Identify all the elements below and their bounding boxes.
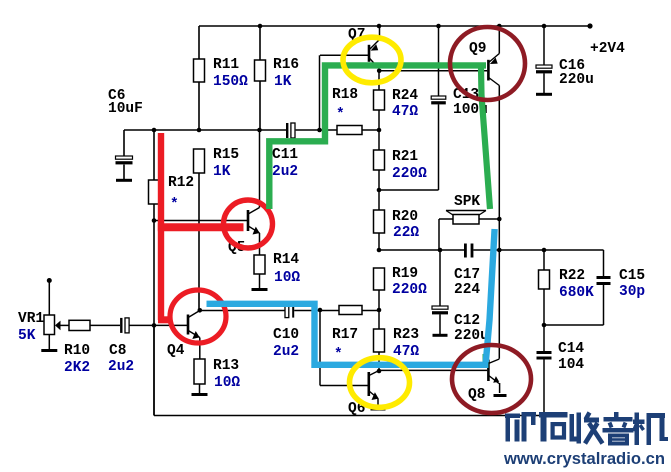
capacitor C16	[536, 26, 552, 93]
wire output row y250	[379, 249, 604, 251]
svg-text:R20: R20	[392, 209, 418, 225]
resistor R13	[194, 359, 205, 393]
svg-text:*: *	[334, 347, 343, 363]
resistor R21	[374, 130, 385, 190]
wire Q9 collector to Q8 collector	[498, 86, 500, 359]
svg-text:SPK: SPK	[454, 194, 480, 210]
capacitor C13	[431, 26, 446, 190]
svg-text:10uF: 10uF	[108, 101, 143, 117]
capacitor C8	[120, 318, 122, 333]
svg-text:220u: 220u	[559, 72, 594, 88]
green annotation stub at Q8 base	[483, 354, 489, 368]
wire Q7 base drop	[319, 55, 321, 130]
svg-text:104: 104	[558, 357, 584, 373]
red circle Q5	[224, 200, 273, 248]
node +2V4 terminal	[587, 23, 592, 28]
svg-text:+2V4: +2V4	[590, 41, 625, 57]
node C12 top	[438, 248, 443, 253]
wire C8 to Q4 base	[129, 324, 188, 326]
red annotation path (input trace)	[158, 133, 244, 320]
svg-text:R15: R15	[213, 147, 239, 163]
svg-text:224: 224	[454, 282, 480, 298]
ground R13	[192, 393, 208, 396]
svg-text:2K2: 2K2	[64, 360, 90, 376]
node R22 bottom / C14 top	[542, 323, 547, 328]
svg-text:47Ω: 47Ω	[392, 104, 418, 120]
ground C12	[433, 334, 448, 337]
node R23 bottom / Q6 collector	[377, 369, 382, 374]
svg-text:2u2: 2u2	[273, 344, 299, 360]
resistor R19	[374, 268, 385, 310]
transistor Q7 (PNP)	[320, 26, 380, 69]
resistor R12	[149, 130, 160, 416]
resistor R20	[374, 190, 385, 250]
wire Q5 base	[154, 220, 247, 222]
svg-text:5K: 5K	[18, 328, 36, 344]
ground C16	[536, 93, 552, 96]
svg-text:220Ω: 220Ω	[392, 166, 427, 182]
node R22 top	[542, 248, 547, 253]
svg-text:R14: R14	[273, 252, 299, 268]
resistor R22	[539, 250, 550, 325]
speaker SPK	[439, 211, 499, 251]
dark red circle Q9	[450, 27, 525, 100]
ground C6	[116, 179, 132, 182]
transistor Q5 (NPN)	[248, 208, 260, 235]
node SPK right / Q9-Q8 collector column	[497, 217, 502, 222]
node output column C17 junction	[497, 248, 502, 253]
svg-text:2u2: 2u2	[108, 359, 134, 375]
svg-text:Q8: Q8	[468, 387, 485, 403]
svg-text:R18: R18	[332, 87, 358, 103]
svg-text:150Ω: 150Ω	[213, 74, 248, 90]
potentiometer VR1	[44, 278, 55, 349]
svg-text:C8: C8	[109, 343, 126, 359]
node Q7 collector / R24 top	[377, 69, 382, 74]
node Q4 base / C8 junction	[152, 323, 157, 328]
svg-text:R16: R16	[273, 57, 299, 73]
resistor R17	[339, 306, 362, 315]
svg-text:R13: R13	[213, 358, 239, 374]
svg-text:R11: R11	[213, 57, 239, 73]
node R20 bottom output rail	[377, 248, 382, 253]
ground Q6	[371, 408, 386, 411]
node R16 top	[258, 24, 263, 29]
svg-text:www.crystalradio.cn: www.crystalradio.cn	[503, 450, 665, 468]
blue annotation path (Q4-Q8 trace)	[207, 229, 495, 365]
svg-text:1K: 1K	[213, 164, 231, 180]
svg-text:220u: 220u	[454, 328, 489, 344]
wire Q9 base	[379, 70, 487, 72]
svg-text:R12: R12	[168, 175, 194, 191]
svg-text:10Ω: 10Ω	[214, 375, 240, 391]
svg-text:C11: C11	[272, 147, 298, 163]
capacitor C17	[464, 244, 473, 258]
resistor R10	[60, 320, 120, 330]
svg-text:22Ω: 22Ω	[393, 225, 419, 241]
transistor Q4 (NPN)	[188, 311, 200, 360]
transistor Q9 (PNP)	[488, 26, 499, 86]
svg-text:10Ω: 10Ω	[274, 270, 300, 286]
node R21 bottom	[377, 188, 382, 193]
node Q7 emitter rail	[377, 24, 382, 29]
wire node row y130 (C6 to C11 to R18)	[124, 129, 379, 131]
node Q5 collector / R16 bottom	[257, 128, 262, 133]
svg-text:R19: R19	[392, 266, 418, 282]
transistor Q6 (NPN)	[369, 371, 379, 408]
svg-text:R23: R23	[393, 327, 419, 343]
svg-text:C10: C10	[273, 327, 299, 343]
yellow circle Q6	[350, 358, 410, 408]
svg-text:R21: R21	[392, 149, 418, 165]
svg-text:C12: C12	[454, 313, 480, 329]
svg-text:30p: 30p	[619, 284, 645, 300]
svg-text:*: *	[170, 197, 179, 213]
svg-text:1K: 1K	[274, 74, 292, 90]
yellow circle Q7	[343, 37, 401, 83]
transistor Q8 (NPN)	[488, 359, 499, 393]
node Q5 base branch	[152, 218, 157, 223]
svg-text:R22: R22	[559, 268, 585, 284]
wire R21 bottom to C13 column	[379, 189, 439, 191]
capacitor C14	[537, 325, 552, 416]
red circle Q4	[170, 290, 226, 343]
ground Q8	[494, 394, 507, 397]
resistor R16	[255, 26, 266, 130]
svg-text:C14: C14	[558, 341, 584, 357]
resistor R18	[337, 126, 362, 135]
capacitor C11	[286, 123, 288, 138]
node R19/R17 junction	[377, 308, 382, 313]
resistor R11	[194, 26, 205, 130]
node Q9 emitter rail	[497, 24, 502, 29]
node Q4 collector	[198, 308, 203, 313]
capacitor C12	[432, 250, 448, 334]
watermark chinese text kuangshi shouyinji	[505, 412, 668, 445]
svg-text:220Ω: 220Ω	[392, 282, 427, 298]
wire bottom feedback rail	[154, 325, 544, 415]
wire Q8 base	[379, 369, 487, 371]
resistor R24	[374, 71, 385, 130]
node R15 top	[197, 128, 202, 133]
resistor R23	[374, 310, 385, 371]
node C16 rail	[542, 24, 547, 29]
svg-text:47Ω: 47Ω	[393, 344, 419, 360]
svg-text:C15: C15	[619, 268, 645, 284]
node Q7 base drop / R18 left	[317, 128, 322, 133]
node C13 rail	[436, 24, 441, 29]
wire Q4 collector row y310	[200, 310, 379, 312]
dark red circle Q8	[452, 345, 531, 413]
ground VR1	[41, 349, 57, 352]
capacitor C15	[544, 250, 611, 325]
wiper arrow VR1	[55, 321, 61, 331]
node C10/R17/Q6-base junction	[318, 308, 323, 313]
node R12 top	[152, 128, 157, 133]
svg-text:Q4: Q4	[167, 343, 185, 359]
svg-text:R17: R17	[332, 327, 358, 343]
resistor R14	[254, 233, 265, 288]
resistor R15	[194, 149, 205, 310]
green annotation path (Q5-Q9 trace)	[269, 65, 490, 209]
svg-text:VR1: VR1	[18, 311, 44, 327]
wire Q5 collector riser	[259, 130, 261, 208]
svg-text:C17: C17	[454, 267, 480, 283]
svg-text:R24: R24	[392, 88, 418, 104]
svg-text:2u2: 2u2	[272, 164, 298, 180]
svg-text:Q9: Q9	[469, 41, 486, 57]
svg-text:R10: R10	[64, 343, 90, 359]
svg-text:680K: 680K	[559, 285, 594, 301]
wire Q6 base drop	[320, 310, 369, 386]
ground R14	[252, 288, 268, 291]
svg-text:*: *	[336, 107, 345, 123]
wire top supply rail	[199, 25, 590, 27]
node R24/R21/R18 junction	[377, 128, 382, 133]
capacitor C6	[116, 130, 133, 179]
capacitor C10	[285, 306, 289, 317]
